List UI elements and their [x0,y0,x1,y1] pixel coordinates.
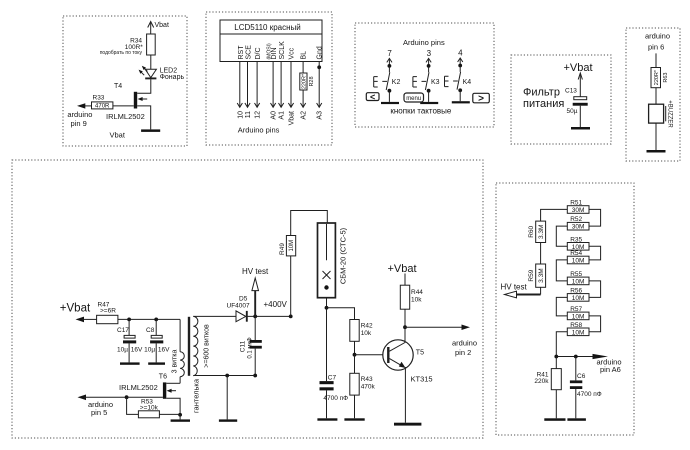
wire tube cathode down [326,298,328,308]
LCD pin wire SCLK to pin A1 [279,62,284,108]
wire K3 top [428,66,430,72]
wire R54 left to R55 left [556,260,567,281]
wire rail to C17 [128,319,130,335]
wire pin6 to R63 [655,53,657,67]
svg-text:+Vbat: +Vbat [388,263,417,275]
svg-text:T4: T4 [114,83,122,90]
svg-text:10M: 10M [572,258,585,265]
svg-text:Vcc: Vcc [289,47,296,59]
svg-text:10: 10 [237,111,244,119]
resistor R57 [567,312,589,320]
ground (K2) [381,102,399,104]
capacitor C11 [250,340,262,349]
wire R58 left to output node [556,332,567,357]
svg-text:Vbat: Vbat [289,111,296,125]
svg-text:K2: K2 [392,79,401,86]
resistor R63 [651,68,661,88]
wire secondary top to D5 [193,315,236,317]
LCD pin wire DIN to pin A0 [271,62,276,108]
+Vbat arrow (converter) [76,317,97,323]
pushbutton K2 [374,72,390,90]
wire R34 to LED2 [150,55,152,69]
svg-text:SCE: SCE [246,45,253,60]
arduino pin 2 label [452,338,477,357]
wire cathode junction to C7 [326,308,328,381]
svg-text:LCD5110 красный: LCD5110 красный [234,23,300,32]
resistor R52 [567,222,589,230]
node K4 bottom junction [458,88,462,92]
wire base junction to T5 base [355,354,389,356]
arduino pin 6 label [645,32,670,52]
svg-text:10M: 10M [289,240,295,252]
ground (filter) [571,127,590,130]
svg-text:BL: BL [301,51,308,60]
svg-text:гантелька: гантелька [192,378,201,413]
LCD5110 module box [220,20,322,62]
svg-text:arduino: arduino [645,32,670,41]
wire R35 right to R54 right [589,246,601,260]
svg-text:C6: C6 [577,373,586,380]
svg-text:СБМ-20 (СТС-5): СБМ-20 (СТС-5) [339,227,348,284]
LED flashlight block dashed border [63,16,187,146]
svg-text:7: 7 [387,49,392,58]
node T6 source junction [178,413,182,417]
wire +400V rail [247,315,291,317]
wire K2 top [388,66,390,72]
wire secondary bottom line [193,375,255,377]
C17 value labels [117,346,143,353]
resistor R47 [97,315,118,323]
wire R52 left to R35 left [556,226,567,246]
node K4 top junction [458,64,462,68]
wire node to R41 [555,357,557,369]
svg-text:R59: R59 [528,269,535,281]
resistor R54 [567,256,589,264]
transistor T4 (MOSFET) [134,92,147,109]
capacitor C13 (polarized) [573,97,588,106]
node collector junction [403,325,407,329]
svg-text:R43: R43 [361,376,373,383]
ground (C17) [120,362,140,364]
resistor R53 [138,411,159,418]
capacitor C17 (polarized) [123,335,136,343]
svg-text:Vbat: Vbat [110,131,126,140]
svg-text:HV test: HV test [501,283,528,292]
wire R56 left to R57 left [556,297,567,316]
svg-text:T6: T6 [159,373,167,380]
wire R51 left to R60 [541,209,568,221]
svg-text:arduino: arduino [67,110,92,119]
wire C7 to ground [326,390,328,418]
LCD pin wire BL to pin A2 [301,90,306,107]
svg-text:50µ: 50µ [567,108,578,115]
pushbutton K4 [445,72,461,90]
capacitor C6 [570,380,582,389]
wire collector junction to T5 [404,327,406,343]
svg-text:HV test: HV test [242,267,269,276]
svg-text:A0: A0 [271,111,278,120]
wire Vbat to R44 [404,274,406,286]
arduino pin A6 arrow [593,354,609,359]
svg-text:arduino: arduino [452,338,477,347]
svg-text:+Vbat: +Vbat [60,302,91,314]
svg-text:220R*: 220R* [654,69,660,85]
resistor R42 [350,320,359,342]
wire LED2 to T4 drain [137,79,151,93]
wire K4 to ground [459,90,461,101]
node K3 top junction [427,64,431,68]
HV test arrow (divider) [505,291,541,298]
LED2 diode [145,69,156,78]
node C6 junction [574,355,578,359]
LED2 emission arrows [139,66,148,75]
pin 7 arrow [387,58,392,65]
svg-text:IRLML2502: IRLML2502 [106,112,145,121]
svg-text:30M: 30M [572,224,585,231]
svg-text:10µ: 10µ [117,346,128,353]
transformer T1 secondary winding [193,316,198,375]
resistor R34 [147,34,156,55]
node C11 bottom junction [253,374,257,378]
svg-text:IRLML2502: IRLML2502 [119,383,158,392]
LCD block dashed border [206,12,332,145]
svg-text:+Vbat: +Vbat [564,62,593,74]
filter title label [523,86,564,110]
svg-text:470k: 470k [361,384,376,391]
wire base junction to R43 [354,355,356,374]
wire C17 to ground [128,343,130,362]
LCD pin wire Gnd to pin A3 [317,62,322,108]
svg-text:Arduino pins: Arduino pins [238,126,280,135]
svg-text:R44: R44 [411,289,423,296]
pin 4 arrow [458,58,463,65]
resistor R59 [536,264,546,287]
svg-text:+400V: +400V [264,300,288,309]
node R41 junction [554,355,558,359]
svg-text:R33: R33 [93,95,105,102]
ground (R43) [344,418,364,420]
wire T6 source down [166,398,180,415]
menu button icon [404,93,424,102]
wire C11 to secondary bottom [254,349,256,376]
Geiger tube SBM-20 [318,223,336,298]
svg-text:pin A6: pin A6 [600,365,621,374]
wire buzzer to ground [655,123,657,150]
svg-text:RST: RST [238,45,245,60]
wire source junction to ground [179,415,181,420]
wire R43 to ground [354,395,356,418]
ground (buzzer) [647,150,666,153]
transformer core [188,317,190,376]
ground (K3) [420,102,438,104]
svg-text:K3: K3 [431,79,440,86]
wire K4 top [459,66,461,72]
resistor R60 [536,221,546,242]
wire rail to C11 [254,316,256,340]
svg-text:10µ: 10µ [144,346,155,353]
wire rail to transformer primary [179,319,181,351]
svg-text:K4: K4 [463,79,472,86]
svg-text:10M: 10M [572,278,585,285]
wire R41 to ground [555,390,557,419]
svg-text:питания: питания [523,98,564,110]
svg-text:4700 пФ: 4700 пФ [577,391,602,398]
right button icon [473,93,490,104]
power filter block dashed border [511,55,611,144]
resistor R28 [300,73,308,90]
C8 value labels [144,346,170,353]
svg-text:C7: C7 [328,374,337,381]
node Gnd junction [317,65,321,69]
wire rail to C8 [155,319,157,335]
svg-text:Arduino pins: Arduino pins [403,38,445,47]
wire T6 drain to primary [166,382,180,384]
svg-text:3: 3 [427,49,432,58]
svg-text:16V: 16V [131,346,143,353]
svg-text:<: < [370,92,375,102]
resistor R41 [551,369,561,390]
wire tap to ground [226,376,228,420]
LCD pin wire RST to pin 10 [237,62,242,108]
Vbat power arrow (LED block) [148,22,154,35]
node R49 bottom junction [289,315,293,319]
wire R57 right to R58 right [589,316,601,332]
svg-text:C11: C11 [240,340,247,352]
svg-text:C8: C8 [146,327,155,334]
wire K2 to ground [388,91,390,102]
svg-text:кнопки тактовые: кнопки тактовые [390,107,452,116]
wire R51 right to R52 right [589,209,601,226]
svg-text:11: 11 [245,111,252,118]
wire gate junction down to R53 [127,397,139,414]
svg-text:подобрать по току: подобрать по току [100,50,143,56]
svg-text:A2: A2 [301,111,308,120]
svg-text:menu: menu [406,96,421,102]
svg-text:R28: R28 [309,76,315,86]
arduino pin 9 arrow [77,103,92,108]
arduino pin 5 label [88,400,113,417]
svg-text:pin 2: pin 2 [455,348,471,357]
arduino pin A6 label [597,357,622,374]
transformer T1 primary winding [180,352,184,377]
wire cathode junction to R42 [327,308,355,320]
svg-text:10k: 10k [361,330,372,337]
svg-text:C13: C13 [565,87,577,94]
left button icon [366,92,379,102]
resistor R44 [400,285,409,309]
ground (T6) [171,419,190,421]
resistor R33 [92,102,113,110]
svg-text:>: > [478,93,484,104]
capacitor C7 [320,381,334,390]
svg-text:4700 пФ: 4700 пФ [323,395,348,402]
svg-text:pin 6: pin 6 [648,43,664,52]
+Vbat arrow (filter) [578,73,582,97]
svg-text:Фильтр: Фильтр [523,86,560,98]
ground (LED block) [141,129,160,132]
HV divider block dashed border [496,183,634,435]
wire primary to T6 drain [179,377,181,384]
svg-text:>=600 витков: >=600 витков [203,324,210,368]
wire C13 to ground [579,106,581,127]
svg-text:220R*: 220R* [301,73,307,89]
resistor R58 [567,328,589,336]
svg-text:A1: A1 [279,111,286,120]
node T6 gate junction [125,395,129,399]
wire R60 to R59 [540,243,542,265]
resistor R35 [567,243,589,251]
wire T5 emitter to ground [404,367,406,423]
LCD pin wire BL upper segment [302,62,304,74]
svg-text:16V: 16V [158,346,170,353]
svg-text:>=6R: >=6R [100,308,116,315]
resistor R55 [567,277,589,285]
wire R42 to base node [354,341,356,354]
svg-text:Фонарь: Фонарь [160,74,185,81]
wire R53 to source junction [159,413,180,415]
LCD pin wire Vcc to Vbat [288,62,293,108]
wire node to C6 [575,357,577,381]
svg-text:12: 12 [255,111,262,119]
transistor T6 (MOSFET) [163,382,176,398]
arduino pin 2 arrow [405,325,470,331]
svg-text:R60: R60 [528,225,535,237]
ground (C7) [317,418,337,420]
svg-text:R63: R63 [663,73,669,83]
main converter block dashed border [12,160,483,438]
svg-text:3.3M: 3.3M [538,268,545,282]
svg-text:Gnd: Gnd [317,46,324,59]
node K2 top junction [388,64,392,68]
svg-text:KT315: KT315 [411,375,433,384]
buttons block dashed border [355,23,494,127]
svg-text:470R: 470R [95,104,110,110]
ground (K4) [452,101,470,103]
svg-text:Vbat: Vbat [155,22,169,29]
node secondary ground tap [225,374,229,378]
wire T4 gate to R33 [113,105,134,107]
svg-text:C17: C17 [117,327,129,334]
wire R63 to buzzer [655,88,657,105]
svg-text:10k: 10k [411,297,422,304]
wire gate junction to T6 gate [127,396,163,398]
svg-text:+BUZZER: +BUZZER [667,100,673,128]
svg-text:T5: T5 [416,349,424,356]
svg-text:30M: 30M [572,207,585,214]
wire R59 to HV test line [540,287,542,294]
wire Vbat rail [118,318,180,320]
wire R55 right to R56 right [589,281,601,298]
svg-text:3.3M: 3.3M [538,225,545,239]
svg-text:pin 9: pin 9 [71,119,87,128]
wire R44 to collector node [404,309,406,327]
ground (secondary) [219,419,237,421]
node C17 junction [127,318,131,322]
transistor T5 (KT315) [383,340,413,370]
resistor R56 [567,294,589,302]
svg-text:SCLK: SCLK [279,41,286,60]
svg-text:4: 4 [458,48,463,57]
pushbutton K3 [413,72,429,90]
node K2 bottom junction [388,89,392,93]
wire C8 to ground [155,343,157,362]
node K3 bottom junction [427,89,431,93]
svg-text:DIN: DIN [271,47,278,59]
wire C6 to ground [575,389,577,418]
wire T4 source to ground [137,106,151,129]
buzzer block dashed border [626,28,680,161]
ground (C8) [148,362,165,364]
wire R49 top to tube anode [291,211,328,236]
svg-text:10M: 10M [572,329,585,336]
LCD pin wire D/C to pin 12 [255,62,260,108]
diode D5 [236,311,247,322]
LCD pin wire SCE to pin 11 [245,62,250,108]
arduino pin 9 label [67,110,92,128]
node tube cathode junction [325,306,329,310]
ground (R41) [544,418,565,421]
svg-text:A3: A3 [317,111,324,120]
resistor R49 [286,236,295,256]
arduino pin 5 arrow [78,395,127,401]
ground (T5) [394,423,421,426]
svg-text:3 витка: 3 витка [172,350,179,374]
svg-text:220k: 220k [534,378,549,385]
ground (C6) [567,418,586,421]
svg-text:10M: 10M [572,295,585,302]
HV test arrow (converter) [252,278,259,316]
resistor R43 [350,373,359,395]
svg-text:UF4007: UF4007 [227,302,251,309]
pin 3 arrow [426,58,431,65]
wire K3 to ground [428,91,430,102]
svg-text:10M: 10M [572,313,585,320]
svg-text:pin 5: pin 5 [91,408,107,417]
resistor R51 [567,206,589,214]
node C8 junction [154,318,158,322]
capacitor C8 (polarized) [150,335,163,343]
svg-text:R49: R49 [279,243,286,255]
wire R49 to rail [290,256,292,317]
node HV test junction [253,315,257,319]
svg-text:D/C: D/C [255,47,262,59]
wire divider output node line [556,356,593,358]
buzzer BZ1 [649,104,666,123]
node base junction [353,353,357,357]
svg-text:R42: R42 [361,322,373,329]
